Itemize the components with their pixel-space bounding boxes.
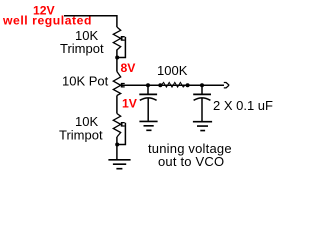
ground symbol under C1 bbox=[139, 121, 157, 130]
svg-text:2 X 0.1 uF: 2 X 0.1 uF bbox=[213, 98, 273, 113]
svg-text:Trimpot: Trimpot bbox=[59, 128, 103, 143]
trimpot R3 wiper loop wire to bottom bbox=[118, 123, 125, 145]
svg-text:100K: 100K bbox=[157, 63, 188, 78]
capacitor C2 bottom lead bbox=[201, 98, 203, 121]
capacitor C2 curved plate bbox=[194, 98, 211, 100]
trimpot R1 body (10K Trimpot, vertical zigzag) bbox=[113, 27, 120, 50]
trimpot R3 wiper arrow bbox=[119, 122, 123, 126]
wire: 12V feed to trimpot R1 top bbox=[64, 16, 117, 27]
node 8V junction dot bbox=[115, 56, 119, 60]
node: rail junction at 100K right bbox=[186, 83, 190, 87]
wire: pot R2 bottom to trimpot R3 top (1V node) bbox=[116, 96, 118, 114]
capacitor C1 curved plate bbox=[140, 98, 157, 100]
trimpot R1 wiper loop wire to bottom bbox=[118, 37, 125, 58]
resistor 100K (horizontal zigzag) bbox=[162, 82, 186, 87]
trimpot R3 wiper whiskers bbox=[121, 123, 125, 126]
capacitor C2 flat plate bbox=[193, 93, 211, 95]
trimpot R1 wiper whiskers bbox=[121, 37, 125, 40]
node: rail junction at 100K left bbox=[158, 83, 162, 87]
ground symbol under C2 bbox=[193, 122, 212, 131]
node: rail junction to capacitor C1 bbox=[146, 83, 150, 87]
potentiometer R2 wiper whiskers bbox=[121, 84, 125, 87]
svg-text:8V: 8V bbox=[121, 61, 137, 75]
capacitor C1 bottom lead bbox=[147, 98, 149, 121]
svg-text:10K Pot: 10K Pot bbox=[62, 74, 109, 89]
capacitor C1 top lead bbox=[147, 85, 149, 93]
trimpot R3 body (10K Trimpot, vertical zigzag) bbox=[113, 114, 120, 138]
capacitor C2 top lead bbox=[201, 85, 203, 93]
node: rail junction to capacitor C2 bbox=[200, 83, 204, 87]
potentiometer R2 wiper arrow bbox=[119, 83, 123, 87]
trimpot R1 wiper arrow bbox=[119, 37, 123, 41]
svg-text:1V: 1V bbox=[122, 96, 138, 110]
svg-text:Trimpot: Trimpot bbox=[60, 41, 104, 56]
ground symbol under R3 bbox=[108, 160, 130, 169]
wire: output rail from R2 wiper bbox=[122, 84, 225, 86]
potentiometer R2 body (10K Pot, vertical zigzag) bbox=[113, 72, 120, 96]
wire: R3 bottom to ground bbox=[116, 137, 118, 160]
node: R3 bottom junction dot bbox=[115, 143, 119, 147]
capacitor C1 flat plate bbox=[139, 93, 157, 95]
svg-text:out to VCO: out to VCO bbox=[158, 154, 224, 169]
arrow: output rail open arrowhead bbox=[224, 83, 229, 88]
wire: R1 bottom to pot R2 top (8V node) bbox=[116, 50, 118, 72]
